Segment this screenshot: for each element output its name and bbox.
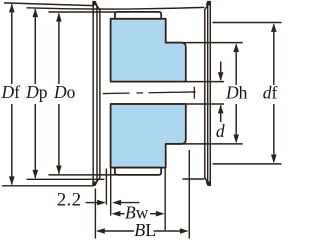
df top arrow xyxy=(271,23,277,32)
dimension line df xyxy=(273,25,275,86)
svg-text:df: df xyxy=(263,82,278,102)
svg-text:Dh: Dh xyxy=(225,82,248,102)
Bw right arrow xyxy=(156,211,165,217)
extension line BL left xyxy=(94,189,96,239)
extension line BL right xyxy=(188,150,190,239)
tooth tip band top xyxy=(115,12,161,19)
extension line bore top (d) xyxy=(111,81,224,83)
d upper arrow (points down) xyxy=(218,72,224,81)
centerline xyxy=(103,87,196,99)
Df bottom arrow xyxy=(9,176,15,185)
extension line Do bottom xyxy=(49,174,116,176)
BL right arrow xyxy=(180,228,189,234)
dimension line d lower xyxy=(220,105,222,122)
Bw arrow stems xyxy=(119,213,125,215)
right flange inner line xyxy=(204,10,206,177)
bottom dimension: 2.2 extension line A xyxy=(86,150,190,239)
arrowheads xyxy=(9,4,277,234)
df bottom arrow xyxy=(271,155,277,164)
2.2 arrow stems xyxy=(86,202,99,204)
body lower half xyxy=(111,104,186,168)
extension line bore bottom (d) xyxy=(111,103,224,105)
Dp top arrow xyxy=(33,8,39,17)
svg-text:BL: BL xyxy=(134,220,156,240)
extension line Dh top / hub top surface xyxy=(166,42,243,44)
dimension line Df xyxy=(11,4,13,84)
dimension line Do xyxy=(58,14,60,84)
right flange middle line xyxy=(207,6,209,183)
right flange top chamfer xyxy=(204,2,210,10)
BL arrow stems xyxy=(98,230,135,232)
dimension line d upper xyxy=(220,62,222,81)
left flange middle line xyxy=(96,6,98,183)
Do bottom arrow xyxy=(56,166,62,175)
svg-text:2.2: 2.2 xyxy=(57,190,82,211)
Do top arrow xyxy=(56,13,62,22)
Df top arrow xyxy=(9,4,15,13)
svg-text:Do: Do xyxy=(53,82,76,102)
right flange outer line xyxy=(209,2,211,186)
left flange bottom apex xyxy=(92,181,97,186)
left flange inner line xyxy=(99,10,101,177)
extension line Dp bottom right segment xyxy=(183,178,205,180)
extension line Df bottom xyxy=(2,185,94,187)
left flange top apex xyxy=(92,1,97,6)
2.2 right-pointing arrow xyxy=(97,200,106,206)
tooth tip band bottom xyxy=(115,168,161,175)
extension line df top xyxy=(213,22,282,24)
extension line Do top xyxy=(49,11,116,13)
extension line df bottom xyxy=(213,163,282,165)
right flange bottom apex xyxy=(206,181,211,186)
dimension line Dh xyxy=(235,45,237,85)
Dh top arrow xyxy=(233,43,239,52)
extension line Dp bottom xyxy=(27,178,105,180)
BL left arrow xyxy=(96,228,105,234)
svg-text:Dp: Dp xyxy=(25,82,48,102)
dimension line Dp xyxy=(34,9,36,84)
left flange bottom chamfer xyxy=(93,177,100,186)
right flange top apex xyxy=(206,1,211,6)
d lower arrow (points up) xyxy=(218,105,224,114)
Dp bottom arrow xyxy=(33,170,39,179)
left flange top chamfer xyxy=(93,2,100,10)
Bw left arrow xyxy=(112,211,121,217)
centerline end tick xyxy=(193,87,195,99)
2.2 left-pointing arrow xyxy=(112,200,121,206)
right flange bottom chamfer xyxy=(204,177,210,186)
Dh bottom arrow xyxy=(233,135,239,144)
svg-text:Df: Df xyxy=(1,82,21,102)
svg-text:d: d xyxy=(216,121,225,141)
body upper half xyxy=(111,19,186,82)
extension line Dh bottom / hub bottom surface xyxy=(166,143,243,145)
extension line Dp top xyxy=(27,7,205,9)
extension line B (body left face, for 2.2 and Bw) xyxy=(110,169,112,216)
extension line C (body right face, for Bw) xyxy=(164,169,166,231)
extension line Df top xyxy=(4,3,93,6)
left flange outer line xyxy=(92,2,94,186)
